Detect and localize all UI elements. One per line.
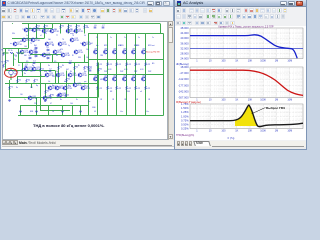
resistor R22: [45, 90, 47, 94]
svg-text:1K: 1K: [235, 59, 238, 62]
left caption button: [147, 1, 154, 6]
transistor Q21: [32, 67, 36, 71]
wire: [20, 105, 88, 107]
ground: [44, 99, 47, 102]
wire bus vertical 5: [126, 34, 128, 116]
transistor Q38: [113, 50, 117, 54]
left tab bar: [2, 140, 174, 147]
transistor Q25: [78, 73, 82, 77]
resistor R48: [135, 63, 137, 67]
svg-text:0.75%: 0.75%: [181, 118, 189, 122]
junction: [135, 74, 136, 75]
AC Analysis icon: [177, 1, 182, 6]
wire emitter: [126, 90, 128, 116]
wire bus vertical 6: [135, 34, 137, 116]
resistor R53: [145, 86, 147, 90]
transistor Q9: [31, 38, 35, 42]
left window title text: [8, 1, 145, 5]
wire bus vertical 3: [107, 34, 109, 116]
plot 1: AC gain: [190, 28, 303, 59]
svg-text:-112.000: -112.000: [178, 77, 189, 81]
svg-text:-242.000: -242.000: [178, 89, 189, 93]
wire: [12, 38, 44, 40]
resistor R33: [97, 86, 99, 90]
resistor R92: [3, 64, 5, 68]
wire: [80, 106, 82, 116]
wire: [40, 63, 42, 111]
junction: [40, 105, 41, 106]
resistor R96: [17, 52, 21, 54]
resistor R10: [40, 68, 42, 72]
junction: [44, 23, 45, 24]
diode D5: [47, 57, 49, 59]
left application window (schematic editor): [0, 0, 174, 150]
node bus top: [88, 33, 164, 35]
schematic vertical scrollbar: [168, 21, 174, 140]
junction: [126, 59, 127, 60]
svg-text:0.50%: 0.50%: [181, 122, 189, 126]
diode D4: [47, 49, 49, 51]
svg-text:1K: 1K: [235, 129, 238, 132]
diode D2: [35, 51, 37, 53]
wire: [40, 110, 70, 112]
svg-text:-307.000: -307.000: [178, 96, 189, 100]
transistor Q35: [104, 77, 108, 81]
wire: [36, 98, 38, 116]
transistor Q32: [43, 96, 47, 100]
junction: [116, 74, 117, 75]
svg-text:-177.000: -177.000: [178, 83, 189, 87]
transistor Q43: [123, 77, 127, 81]
wire: [68, 24, 70, 34]
svg-text:1K: 1K: [235, 98, 238, 101]
left toolbar row 1: [1, 8, 6, 13]
transistor Q31: [94, 77, 98, 81]
capacitor C4: [69, 63, 72, 64]
svg-text:1M: 1M: [275, 129, 278, 132]
svg-text:1.25%: 1.25%: [181, 110, 189, 114]
resistor R32: [97, 63, 99, 67]
wire: [60, 24, 62, 34]
svg-text:28.000: 28.000: [180, 51, 189, 55]
resistor R13: [74, 66, 76, 70]
right application window (AC Analysis): [174, 0, 307, 150]
source V1: [9, 70, 13, 74]
transistor Q20: [24, 67, 28, 71]
wire: [66, 71, 68, 98]
transistor Q1: [24, 28, 28, 32]
wire: [13, 53, 15, 66]
wire emitter: [145, 90, 147, 116]
transistor Q50: [142, 50, 146, 54]
diode D3: [35, 55, 37, 57]
wire: [18, 62, 88, 64]
wire: [72, 106, 74, 116]
svg-text:100K: 100K: [260, 59, 266, 62]
resistor R95: [10, 52, 14, 54]
svg-text:40.000: 40.000: [180, 36, 189, 40]
resistor R21: [98, 68, 100, 72]
wire: [55, 71, 57, 84]
junction: [97, 115, 98, 116]
node bus mid: [88, 59, 164, 61]
wire: [18, 49, 20, 63]
ground: [8, 99, 11, 102]
svg-text:1: 1: [196, 129, 198, 132]
transistor Q14: [20, 50, 24, 54]
plot 3: group delay with yellow peak: [190, 104, 303, 129]
wire: [3, 48, 28, 50]
left window app icon: [2, 1, 6, 5]
transistor Q42: [123, 50, 127, 54]
AC Analysis title bar: [175, 0, 306, 7]
resistor R49: [135, 86, 137, 90]
svg-text:100: 100: [221, 98, 226, 101]
resistor R11: [58, 66, 60, 70]
resistor R52: [145, 63, 147, 67]
svg-text:-47.000: -47.000: [179, 71, 189, 75]
diode D6: [29, 57, 31, 59]
resistor R36: [107, 63, 109, 67]
junction: [88, 59, 89, 60]
svg-text:1.50%: 1.50%: [181, 106, 189, 110]
wire: [30, 54, 62, 56]
delay curve: [190, 105, 303, 127]
node V- rail: [18, 115, 164, 117]
wire: [36, 24, 38, 39]
junction: [145, 59, 146, 60]
svg-text:10: 10: [209, 129, 212, 132]
transistor Q2: [32, 28, 36, 32]
junction: [12, 23, 13, 24]
transistor Q7: [13, 42, 17, 46]
transistor Q5: [66, 29, 70, 33]
node bus low: [88, 74, 164, 76]
transistor Q28: [63, 86, 67, 90]
resistor R3: [60, 25, 62, 29]
wire rail drop: [160, 24, 162, 34]
svg-text:48.000: 48.000: [180, 26, 189, 30]
junction: [74, 62, 75, 63]
wire: [10, 75, 12, 80]
wire: [98, 63, 100, 98]
wire: [84, 55, 86, 63]
wire: [10, 69, 12, 71]
ground: [19, 110, 22, 113]
transistor Q34: [104, 50, 108, 54]
wire bus vertical 2: [97, 34, 99, 116]
AC Analysis title text: [183, 1, 203, 5]
transistor Q3: [42, 29, 46, 33]
left caption button: [163, 1, 170, 6]
right toolbar row 3: [176, 21, 181, 26]
svg-text:100: 100: [221, 129, 226, 132]
wire: [5, 49, 7, 71]
svg-text:1.00%: 1.00%: [181, 114, 189, 118]
transistor Q27: [55, 86, 59, 90]
resistor R2: [44, 25, 46, 29]
wire: [74, 63, 76, 84]
resistor R41: [116, 86, 118, 90]
transistor Q29: [73, 83, 77, 87]
transistor Q30: [94, 50, 98, 54]
wire: [84, 24, 86, 34]
svg-text:0.25%: 0.25%: [181, 127, 189, 131]
transistor Q46: [132, 50, 136, 54]
wire: [5, 83, 98, 85]
capacitor C1: [33, 63, 36, 64]
left toolbar row 2: [1, 15, 6, 20]
wire: [19, 52, 25, 54]
caption button: [280, 1, 287, 6]
junction: [40, 83, 41, 84]
transistor Q10: [45, 42, 49, 46]
transistor Q6: [74, 29, 78, 33]
phase curve: [190, 70, 303, 95]
resistor R12: [66, 78, 68, 82]
transistor Q15: [29, 50, 33, 54]
ground: [61, 110, 64, 113]
svg-text:F (Гц): F (Гц): [228, 137, 235, 140]
svg-text:24.000: 24.000: [180, 57, 189, 61]
wire bus vertical 8: [163, 34, 165, 116]
wire emitter: [116, 90, 118, 116]
junction: [66, 83, 67, 84]
junction: [97, 74, 98, 75]
svg-text:1.75%: 1.75%: [181, 102, 189, 106]
resistor R20: [88, 66, 90, 70]
capacitor C3: [25, 66, 28, 67]
transistor Q16: [42, 53, 46, 57]
wire: [76, 24, 78, 34]
wire: [17, 76, 45, 78]
right toolbar row 2: [176, 14, 181, 19]
resistor R23: [17, 79, 19, 83]
svg-text:10M: 10M: [287, 98, 292, 101]
svg-text:100: 100: [221, 59, 226, 62]
wire: [58, 63, 60, 84]
plot 2: phase: [190, 67, 303, 98]
svg-text:10: 10: [209, 59, 212, 62]
svg-text:32.000: 32.000: [180, 46, 189, 50]
resistor R9: [22, 68, 24, 72]
wire bus vertical 7: [145, 34, 147, 116]
svg-text:10K: 10K: [248, 129, 253, 132]
junction: [9, 97, 10, 98]
junction: [76, 23, 77, 24]
resistor R18: [57, 94, 59, 98]
svg-text:1M: 1M: [275, 59, 278, 62]
transistor Q11: [58, 42, 62, 46]
svg-text:1: 1: [196, 59, 198, 62]
svg-text:10M: 10M: [287, 59, 292, 62]
transistor Q18: [61, 53, 65, 57]
transistor Q19: [74, 50, 78, 54]
resistor R7: [9, 86, 11, 90]
transistor Q30: [81, 86, 85, 90]
junction: [58, 62, 59, 63]
resistor R16: [34, 79, 36, 83]
wire: [31, 84, 33, 89]
svg-text:10K: 10K: [248, 59, 253, 62]
close button: [296, 1, 304, 6]
resistor R44: [126, 63, 128, 67]
junction: [126, 115, 127, 116]
svg-text:Кривая АЧХ с Тмакс_усилит мощн: Кривая АЧХ с Тмакс_усилит мощности_2,5 Г…: [218, 26, 273, 29]
yellow fill: [235, 105, 257, 126]
junction: [40, 62, 41, 63]
wire: [26, 28, 52, 30]
wire: [45, 84, 47, 98]
wire: [28, 24, 30, 49]
svg-text:10K: 10K: [248, 98, 253, 101]
wire: [3, 52, 9, 54]
wire: [20, 106, 22, 116]
right tab bar: [175, 141, 306, 147]
transistor Q12: [70, 38, 74, 42]
transistor Q26: [48, 86, 52, 90]
resistor R37: [107, 86, 109, 90]
resistor R15: [26, 79, 28, 83]
wire emitter: [135, 90, 137, 116]
wire: [17, 77, 19, 84]
ground: [35, 110, 38, 113]
resistor R6: [84, 25, 86, 29]
wire emitter: [97, 90, 99, 116]
wire: [9, 97, 98, 99]
junction: [36, 115, 37, 116]
transistor Q23: [56, 73, 60, 77]
annotation red ellipse: [5, 68, 18, 77]
junction: [5, 70, 6, 71]
transistor Q22: [45, 73, 49, 77]
capacitor C5: [89, 70, 92, 71]
wire: [48, 106, 50, 116]
transistor Q31: [28, 96, 32, 100]
wire: [62, 106, 64, 116]
wire: [5, 70, 55, 72]
svg-text:10M: 10M: [287, 129, 292, 132]
svg-text:36.000: 36.000: [180, 41, 189, 45]
junction: [45, 97, 46, 98]
svg-text:44.000: 44.000: [180, 31, 189, 35]
transistor Q17: [53, 50, 57, 54]
svg-text:1M: 1M: [275, 98, 278, 101]
transistor Q51: [142, 77, 146, 81]
ground: [79, 110, 82, 113]
transistor Q4: [50, 29, 54, 33]
wire: [44, 24, 46, 39]
svg-text:Выброс ГВЗ: Выброс ГВЗ: [266, 106, 285, 110]
annotation arrow: [252, 108, 266, 114]
junction: [154, 115, 155, 116]
wire: [52, 55, 54, 63]
svg-text:18.000: 18.000: [180, 65, 189, 69]
diode D1: [35, 47, 37, 49]
wire emitter: [107, 90, 109, 116]
resistor R17: [50, 94, 52, 98]
transistor Q8: [22, 38, 26, 42]
junction: [18, 62, 19, 63]
junction: [154, 74, 155, 75]
left window title bar: [1, 0, 173, 7]
resistor R45: [126, 86, 128, 90]
transistor Q33: [58, 93, 62, 97]
reference line: [190, 48, 303, 50]
junction: [62, 105, 63, 106]
resistor R4: [68, 25, 70, 29]
resistor R40: [116, 63, 118, 67]
junction: [107, 59, 108, 60]
wire: [52, 24, 54, 29]
transistor Q13: [82, 42, 86, 46]
resistor R14: [84, 66, 86, 70]
junction: [60, 23, 61, 24]
schematic canvas: [2, 21, 168, 140]
transistor Q24: [68, 73, 72, 77]
transistor Q39: [113, 77, 117, 81]
transistor Q47: [132, 77, 136, 81]
capacitor C6: [94, 27, 97, 28]
right toolbar row 1: [176, 8, 181, 13]
junction: [66, 97, 67, 98]
junction: [28, 23, 29, 24]
resistor R1: [36, 25, 38, 29]
wire bus vertical 1: [88, 34, 90, 116]
node V+ rail: [22, 23, 160, 25]
resistor R91: [3, 52, 5, 56]
wire: [9, 80, 11, 98]
svg-text:100K: 100K: [260, 129, 266, 132]
resistor R19: [65, 94, 67, 98]
resistor R5: [76, 25, 78, 29]
junction: [62, 115, 63, 116]
wire: [22, 63, 24, 77]
svg-text:10: 10: [209, 98, 212, 101]
resistor R8: [5, 60, 7, 64]
wire bus vertical 4: [116, 34, 118, 116]
capacitor C2: [49, 71, 52, 72]
gain curve: [190, 35, 297, 59]
capacitor C7: [102, 27, 105, 28]
plot pane: [175, 26, 306, 141]
left caption button: [155, 1, 162, 6]
svg-text:THD(Выход)(%): THD(Выход)(%): [176, 134, 194, 137]
svg-text:100K: 100K: [260, 98, 266, 101]
caption button: [288, 1, 295, 6]
